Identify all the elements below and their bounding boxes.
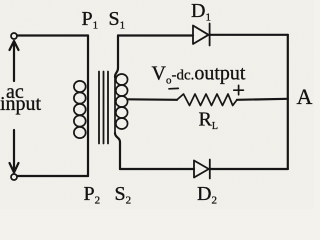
wire S1 to diode D1 (118, 34, 193, 36)
svg-text:A: A (297, 84, 313, 109)
polarity plus (234, 85, 244, 94)
svg-text:Vo-dc.output: Vo-dc.output (152, 62, 246, 86)
diode D1 (193, 24, 210, 46)
wire bottom-left horizontal (17, 175, 88, 177)
wire center tap to resistor (128, 98, 178, 101)
wire D1 to top-right corner (210, 34, 288, 36)
wire resistor to node A (237, 99, 288, 100)
transformer primary winding P1-P2 (74, 81, 86, 138)
transformer core (99, 72, 108, 144)
wire secondary top vertical (115, 36, 118, 78)
resistor RL zigzag (177, 94, 237, 106)
wire top-left horizontal (17, 34, 88, 36)
transformer secondary winding S1-S2 (115, 74, 128, 133)
wire secondary bottom vertical (115, 133, 120, 169)
ac source arrow down (10, 130, 19, 173)
terminal: ac input bottom (11, 174, 17, 180)
diode D2 (194, 160, 210, 179)
terminal: ac input top (11, 33, 17, 39)
polarity minus (169, 87, 178, 89)
svg-text:input: input (0, 93, 42, 115)
wire D2 to bottom-right corner (210, 168, 288, 170)
wire bottom horizontal S2 to D2 (120, 168, 194, 170)
wire primary vertical (87, 36, 89, 177)
wire right vertical (287, 35, 289, 169)
ac source arrow up (10, 41, 19, 81)
